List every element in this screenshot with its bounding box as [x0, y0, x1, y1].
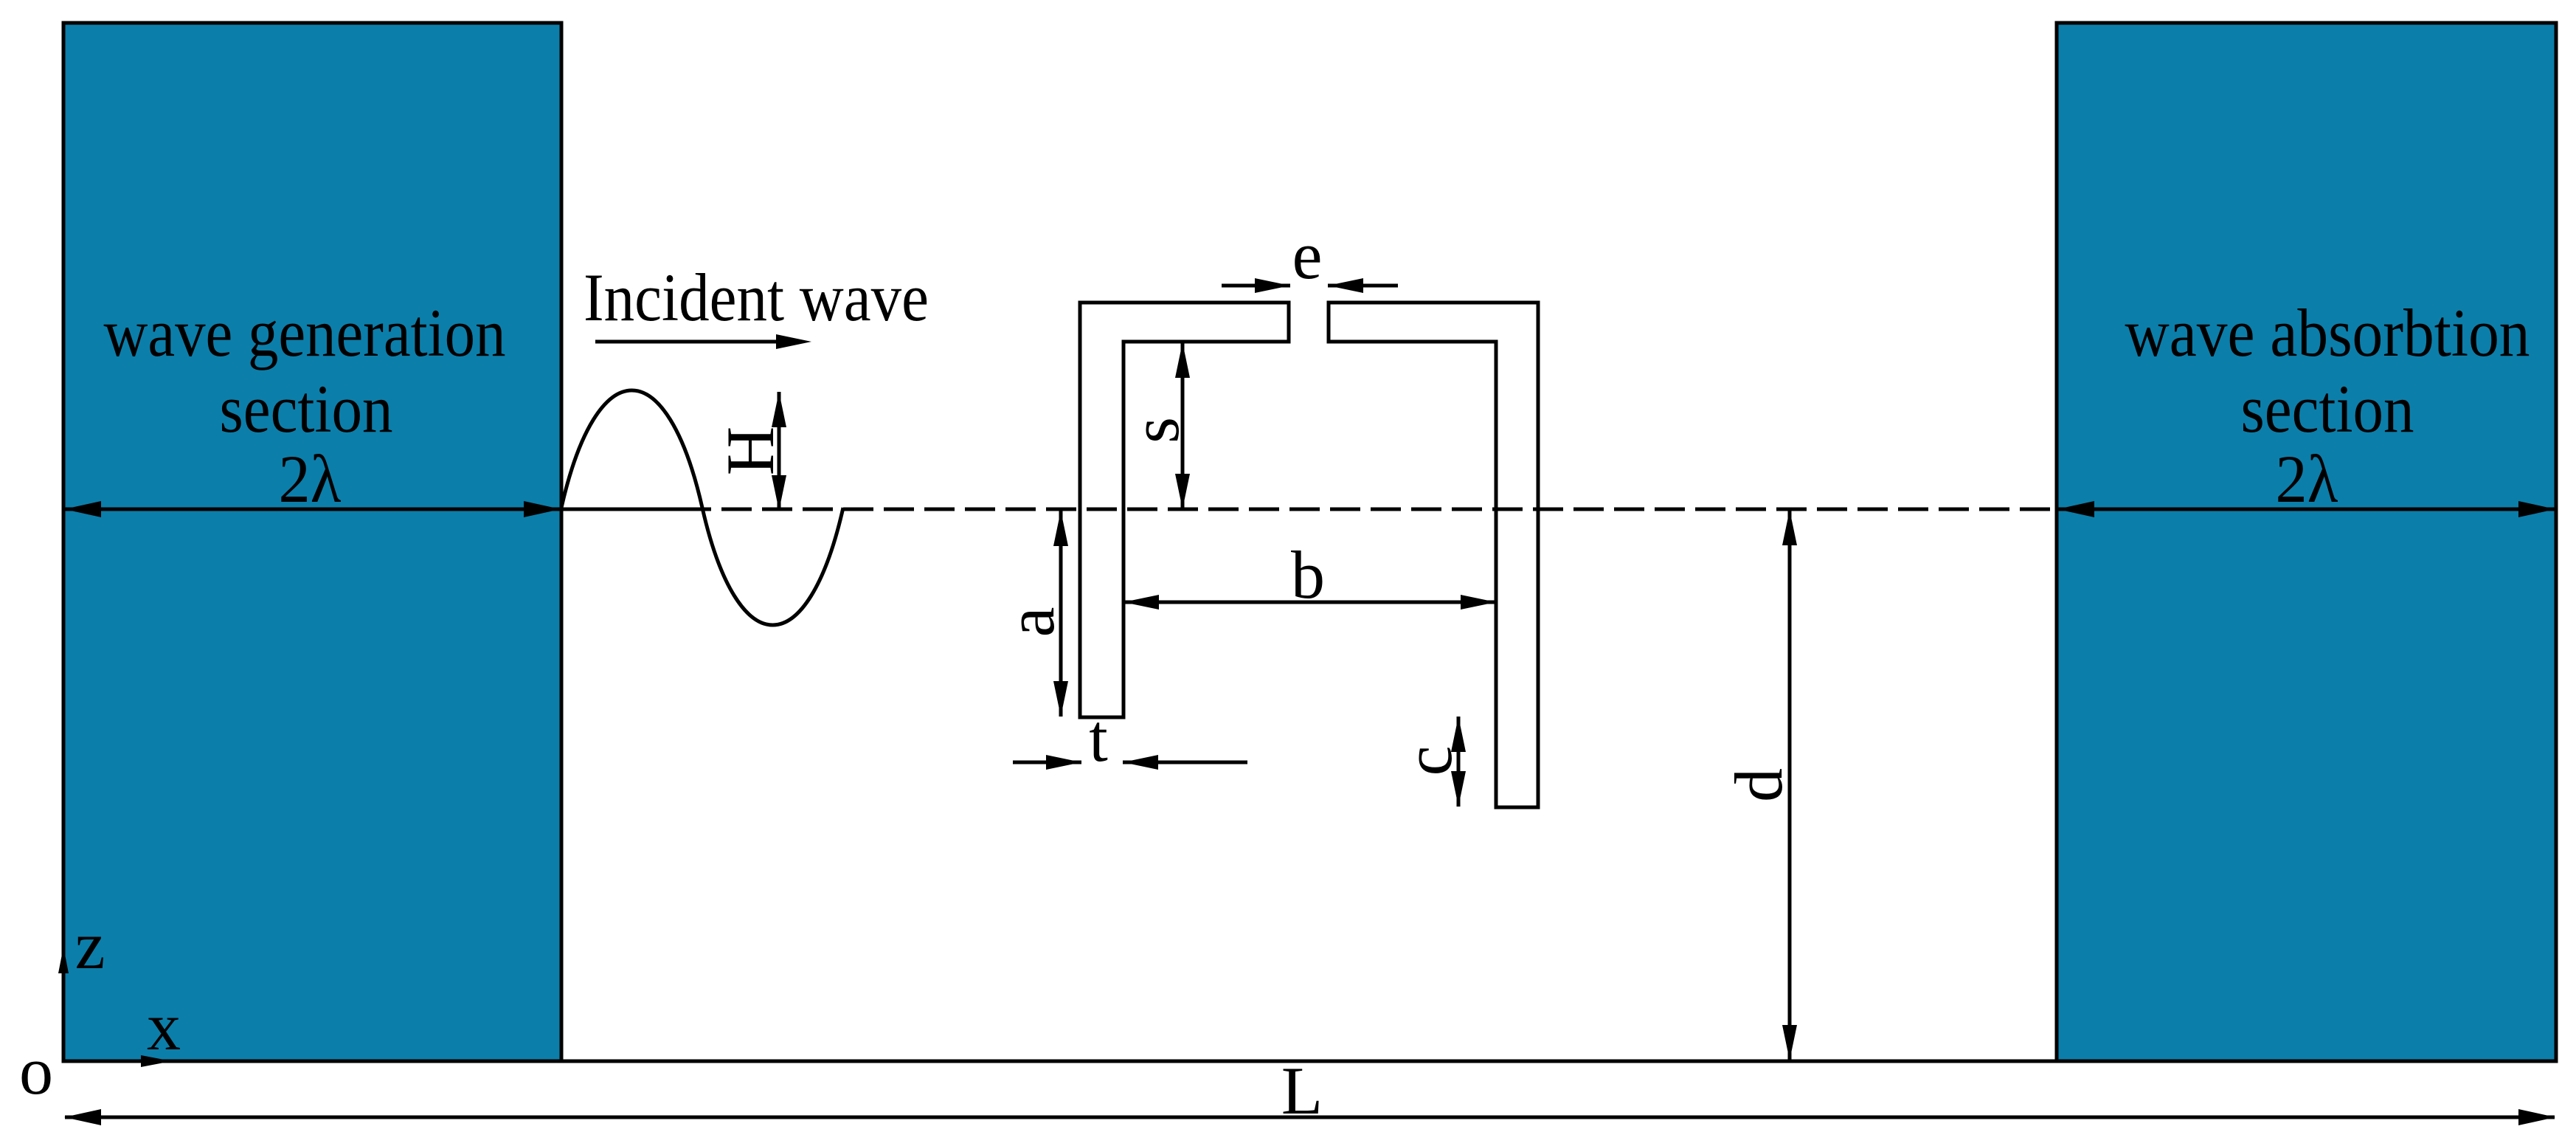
- svg-text:wave absorbtion: wave absorbtion: [2125, 295, 2530, 370]
- svg-text:d: d: [1721, 768, 1796, 802]
- svg-text:wave generation: wave generation: [104, 295, 506, 370]
- svg-text:a: a: [993, 607, 1068, 638]
- svg-text:2λ: 2λ: [279, 441, 342, 517]
- svg-text:x: x: [147, 989, 181, 1064]
- svg-text:section: section: [2241, 371, 2414, 446]
- svg-text:c: c: [1391, 746, 1466, 776]
- svg-text:section: section: [220, 371, 393, 446]
- svg-text:H: H: [713, 427, 788, 475]
- svg-text:e: e: [1292, 218, 1323, 293]
- svg-text:z: z: [75, 908, 105, 983]
- svg-text:o: o: [19, 1033, 53, 1108]
- svg-text:s: s: [1118, 417, 1193, 443]
- svg-text:2λ: 2λ: [2276, 441, 2338, 517]
- svg-text:t: t: [1089, 700, 1108, 776]
- svg-text:b: b: [1291, 537, 1325, 612]
- svg-text:Incident wave: Incident wave: [584, 260, 929, 335]
- svg-text:L: L: [1281, 1053, 1323, 1128]
